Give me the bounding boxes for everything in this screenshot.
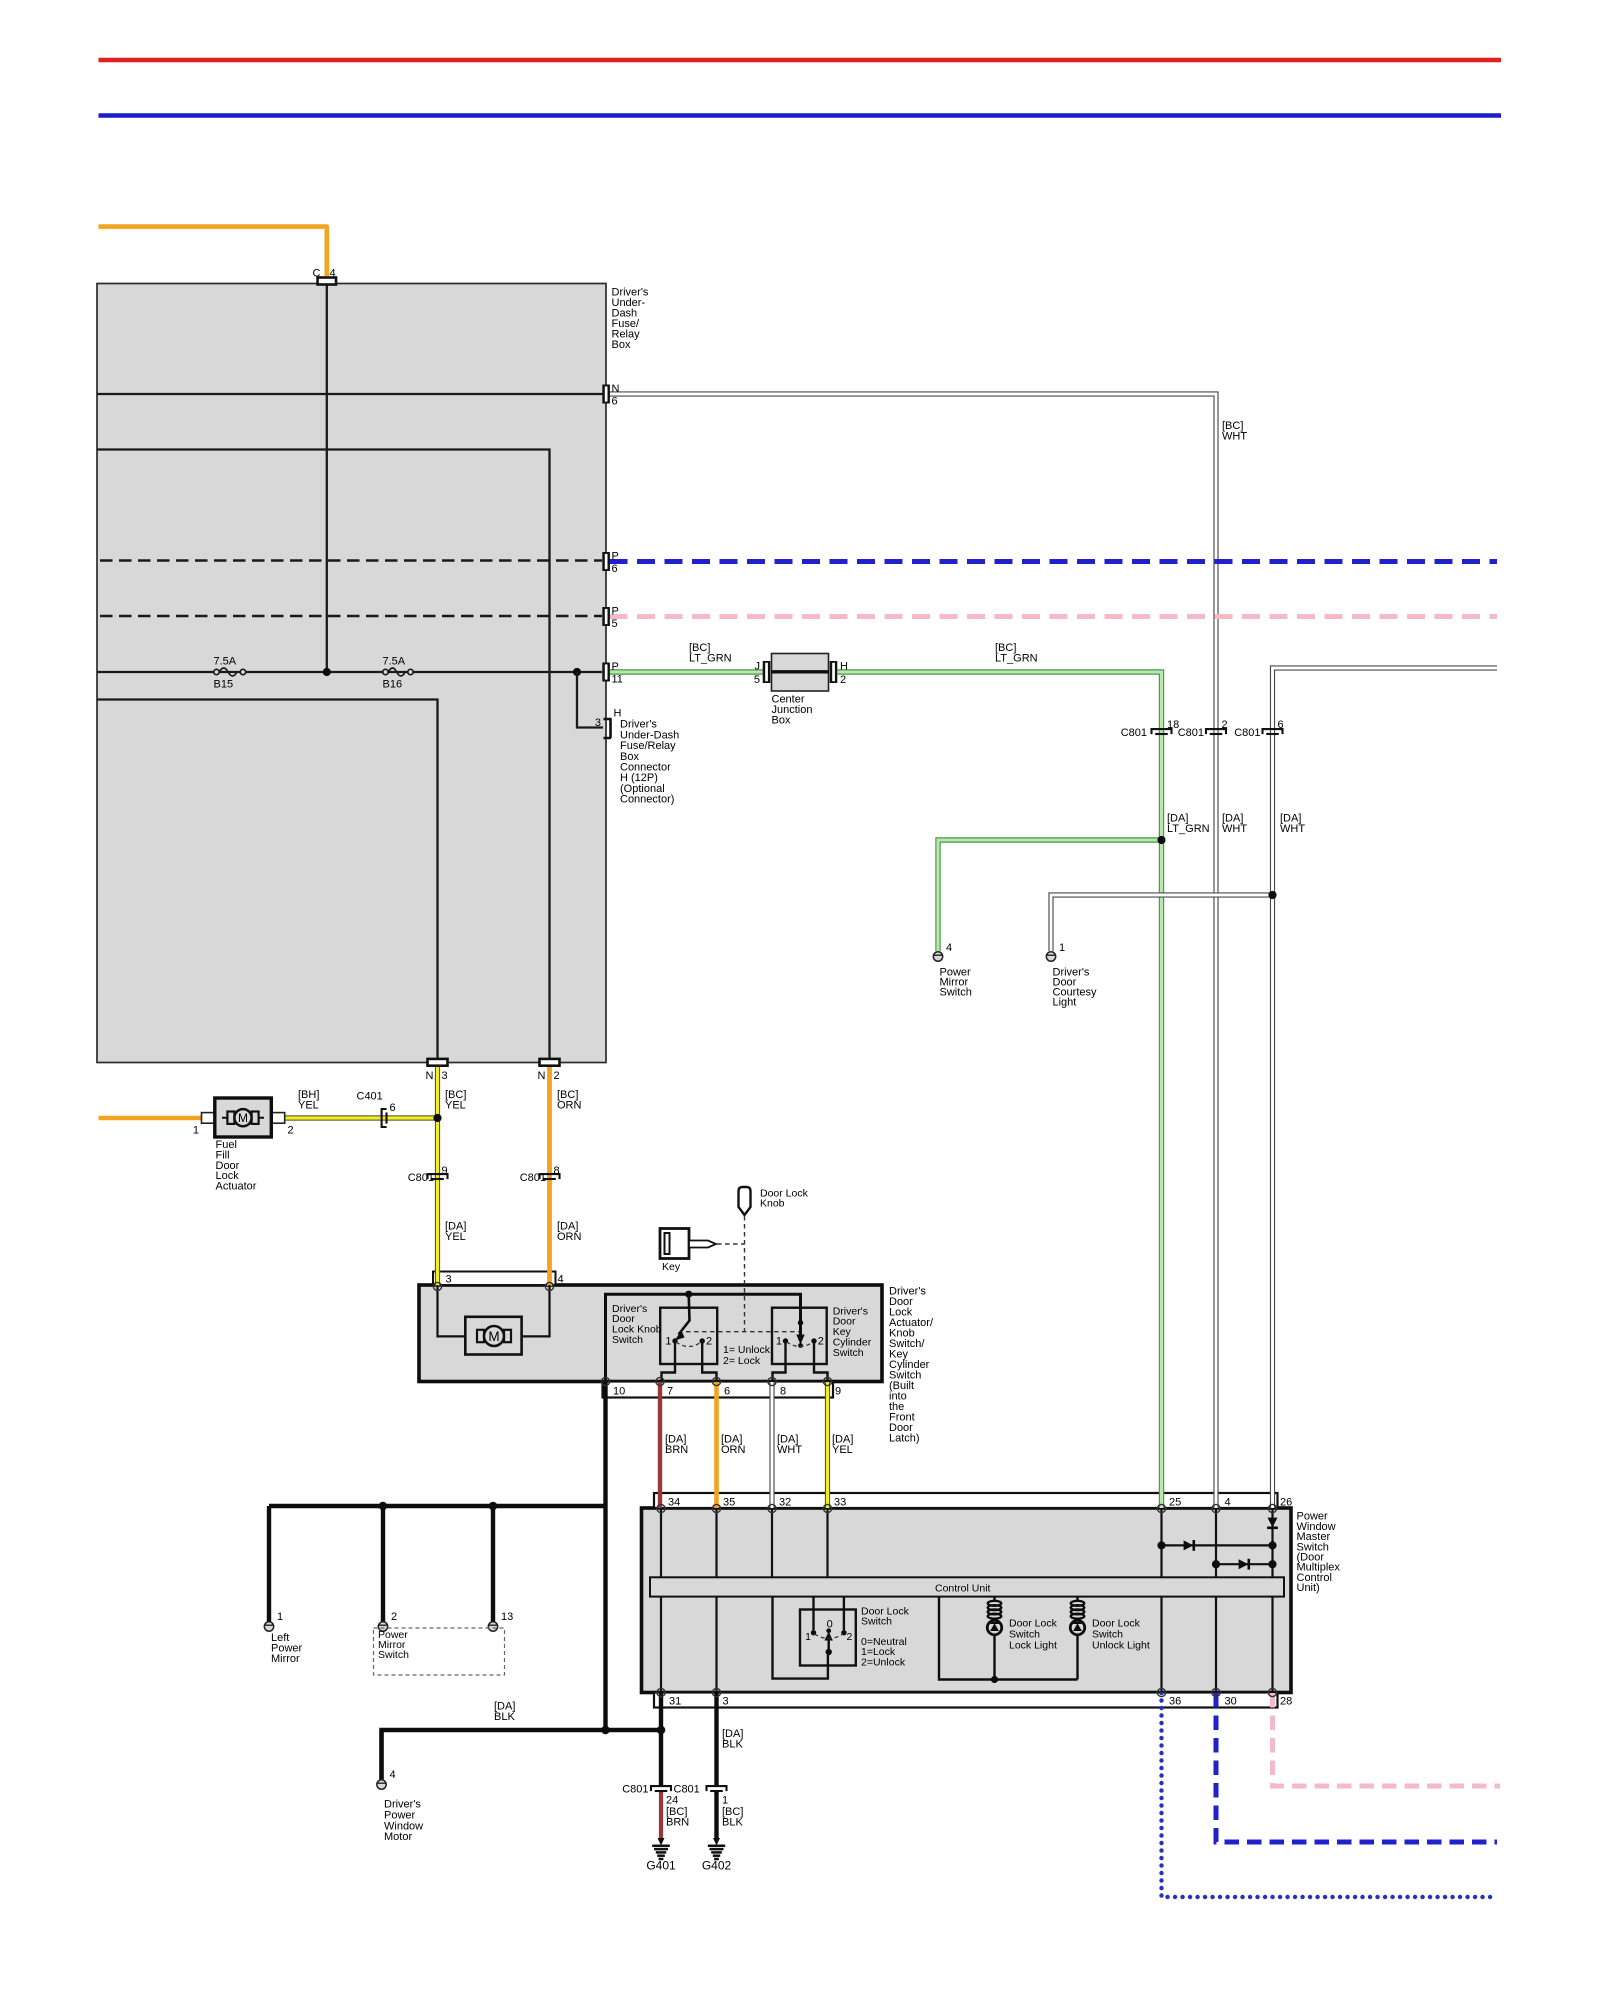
svg-text:H: H xyxy=(840,661,848,673)
label Unlock Light xyxy=(1092,1617,1150,1651)
wire: blue dashed from pin 30 xyxy=(1216,1693,1497,1842)
terminal 1: Driver's Door Courtesy Light xyxy=(1046,952,1055,961)
label [BC] ORN xyxy=(557,1089,582,1112)
svg-text:1: 1 xyxy=(805,1631,811,1643)
center junction box internal bar xyxy=(772,670,829,673)
svg-text:BLK: BLK xyxy=(722,1817,743,1829)
svg-text:2= Lock: 2= Lock xyxy=(723,1355,761,1367)
internal leads pins 34,35,32,33 to control unit xyxy=(661,1508,828,1577)
svg-text:9: 9 xyxy=(442,1165,448,1177)
wire: stub to driver power window motor xyxy=(379,1730,383,1780)
junction dot yellow xyxy=(433,1114,441,1122)
terminal 4: Driver's Power Window Motor xyxy=(377,1780,386,1789)
svg-text:36: 36 xyxy=(1169,1696,1181,1708)
label [BC] LT_GRN left xyxy=(689,642,732,665)
svg-text:BRN: BRN xyxy=(666,1817,689,1829)
ground G402 xyxy=(708,1846,725,1859)
label [DA] ORN 2 xyxy=(721,1434,746,1457)
svg-text:M: M xyxy=(488,1329,499,1344)
svg-text:3: 3 xyxy=(723,1696,729,1708)
wire: latch common pin 10 up and across xyxy=(606,1294,801,1381)
wire: BLK bus to mirrors xyxy=(269,1504,606,1508)
svg-text:34: 34 xyxy=(668,1497,680,1509)
connector N2 on fuse box xyxy=(540,1059,560,1066)
connector C401 pin 6 xyxy=(382,1109,387,1127)
label [BC] WHT xyxy=(1222,420,1247,443)
ground G401 xyxy=(652,1846,670,1859)
svg-text:2: 2 xyxy=(818,1336,824,1348)
label [BC] BRN xyxy=(666,1806,689,1829)
label latch assembly xyxy=(889,1286,934,1445)
junction dot knob lever xyxy=(685,1291,692,1298)
key cylinder lever xyxy=(798,1320,803,1325)
terminal 1: Left Power Mirror xyxy=(264,1622,273,1631)
svg-text:8: 8 xyxy=(554,1165,560,1177)
label Fuel Fill Door Lock Actuator xyxy=(216,1139,257,1192)
svg-text:28: 28 xyxy=(1280,1696,1292,1708)
label [BC] BLK xyxy=(722,1806,743,1829)
label switch positions xyxy=(861,1636,907,1669)
svg-text:10: 10 xyxy=(613,1386,625,1398)
junction dot white branch xyxy=(1268,891,1276,899)
svg-text:35: 35 xyxy=(723,1497,735,1509)
svg-text:WHT: WHT xyxy=(1222,823,1247,835)
label [BC] LT_GRN right xyxy=(995,642,1038,665)
svg-text:1: 1 xyxy=(1059,942,1065,954)
terminal 13: Power Mirror Switch xyxy=(488,1622,497,1631)
svg-text:Box: Box xyxy=(612,339,631,351)
svg-text:H: H xyxy=(614,708,622,720)
connector H (12P) bracket xyxy=(604,718,612,738)
label [DA] WHT right xyxy=(1280,813,1305,836)
door lock switch lever arrow xyxy=(825,1632,833,1641)
svg-text:M: M xyxy=(238,1111,248,1125)
label Left Power Mirror xyxy=(271,1632,303,1665)
fuse B15 7.5A xyxy=(214,668,246,676)
mechanical dashed link: key to rod xyxy=(717,1243,745,1245)
svg-text:C801: C801 xyxy=(1178,727,1204,739)
svg-text:6: 6 xyxy=(390,1102,396,1114)
wire [BC] BLK to ground G402 xyxy=(714,1791,718,1840)
svg-text:YEL: YEL xyxy=(445,1231,466,1243)
svg-text:LT_GRN: LT_GRN xyxy=(995,653,1038,665)
wire [BC]/[DA] ORN from N2 to latch pin 4 xyxy=(547,1065,552,1286)
svg-text:5: 5 xyxy=(612,618,618,630)
door lock switch dashed arc xyxy=(815,1634,843,1639)
svg-text:24: 24 xyxy=(666,1795,678,1807)
wire: [DA] BLK master pin 3 to C801 xyxy=(714,1693,718,1785)
label Lock Light xyxy=(1009,1617,1058,1651)
key cylinder dashed arc xyxy=(787,1342,814,1347)
svg-text:1: 1 xyxy=(193,1125,199,1137)
svg-text:Switch: Switch xyxy=(861,1616,892,1628)
svg-text:Switch: Switch xyxy=(833,1347,864,1359)
svg-text:Key: Key xyxy=(662,1261,681,1273)
wire: BLK master pin 31 to C801 xyxy=(659,1693,663,1785)
svg-text:Knob: Knob xyxy=(760,1197,785,1209)
connector N6 xyxy=(602,385,610,404)
label 1=Unlock 2=Lock xyxy=(723,1344,771,1367)
svg-text:4: 4 xyxy=(1225,1497,1231,1509)
svg-text:BLK: BLK xyxy=(494,1711,515,1723)
connector C801 pin 8 xyxy=(540,1174,560,1179)
wire: internal bus L-shape to N2 xyxy=(97,450,550,1063)
connector P6 xyxy=(602,552,610,571)
master bottom connector strip xyxy=(654,1693,1278,1708)
mechanical dashed link: horizontal to levers xyxy=(686,1331,800,1333)
svg-text:30: 30 xyxy=(1225,1696,1237,1708)
wire [DA] ORN pin6 to master 35 xyxy=(714,1382,719,1508)
svg-text:WHT: WHT xyxy=(777,1444,802,1456)
svg-text:6: 6 xyxy=(1278,719,1284,731)
svg-text:2: 2 xyxy=(288,1125,294,1137)
blue rail xyxy=(99,113,1502,117)
svg-text:J: J xyxy=(755,661,761,673)
wire [BC]/[DA] WHT right edge to master pin 26 xyxy=(1273,668,1498,1508)
wire [BC]/[DA] YEL from N3 to latch pin 3 xyxy=(435,1065,440,1286)
motor: driver door lock actuator xyxy=(477,1326,511,1346)
svg-text:B16: B16 xyxy=(383,679,403,691)
svg-text:Switch: Switch xyxy=(940,987,972,999)
connector C801 pin 9 xyxy=(428,1174,448,1179)
wire LT_GRN branch to power mirror switch xyxy=(938,840,1162,951)
wire [BC] LT_GRN from P11 to center junction box xyxy=(610,669,766,674)
wires inside latch box to motor xyxy=(438,1285,480,1336)
wire: blue dotted from pin 36 xyxy=(1162,1693,1498,1897)
knob switch pins 1,2 xyxy=(672,1338,677,1343)
wire [BC] BRN to ground G401 xyxy=(659,1791,663,1840)
svg-text:C401: C401 xyxy=(357,1091,383,1103)
label [DA] ORN xyxy=(557,1221,582,1244)
svg-text:BRN: BRN xyxy=(665,1444,688,1456)
connector N3 on fuse box xyxy=(428,1059,448,1066)
junction on fuse bus to connector H xyxy=(573,668,581,676)
wire: pink dashed from pin 28 xyxy=(1273,1693,1501,1786)
wire: dashed internal bus P5 xyxy=(100,615,602,617)
svg-text:3: 3 xyxy=(442,1070,448,1082)
svg-text:6: 6 xyxy=(612,563,618,575)
svg-text:4: 4 xyxy=(558,1274,564,1286)
label [DA] YEL 2 xyxy=(832,1434,853,1457)
svg-text:25: 25 xyxy=(1169,1497,1181,1509)
svg-text:1: 1 xyxy=(722,1795,728,1807)
wire: internal bus L-shape to N3 xyxy=(97,700,438,1063)
svg-text:B15: B15 xyxy=(214,679,234,691)
diode D3 pin-4 row xyxy=(1239,1559,1249,1570)
key cylinder pins 1,2 xyxy=(783,1338,788,1343)
master top connector strip xyxy=(654,1493,1278,1508)
svg-text:ORN: ORN xyxy=(557,1100,582,1112)
connector H2 (center junction box) xyxy=(830,661,838,683)
svg-text:Switch: Switch xyxy=(612,1334,643,1346)
actuator top connector strip (pins 3,4) xyxy=(433,1272,556,1286)
svg-text:Actuator: Actuator xyxy=(216,1180,257,1192)
svg-text:P: P xyxy=(612,606,619,618)
svg-text:31: 31 xyxy=(669,1696,681,1708)
svg-text:LT_GRN: LT_GRN xyxy=(1167,823,1210,835)
wire: fuse bus xyxy=(97,671,602,673)
Key icon xyxy=(660,1229,716,1259)
svg-text:WHT: WHT xyxy=(1280,823,1305,835)
svg-text:Light: Light xyxy=(1053,997,1077,1009)
LED: Door Lock Switch Unlock Light xyxy=(1070,1597,1084,1680)
label knob switch xyxy=(612,1303,662,1346)
svg-text:11: 11 xyxy=(612,674,623,686)
connector C4 on fuse box xyxy=(318,278,337,285)
LED: Door Lock Switch Lock Light xyxy=(987,1597,1001,1680)
wire [DA] BRN pin7 to master 34 xyxy=(658,1382,662,1508)
svg-text:5: 5 xyxy=(754,674,760,686)
label connector H (12P) xyxy=(620,719,679,806)
Driver's Door Key Cylinder Switch box xyxy=(772,1308,827,1364)
label [DA] BLK pin3 xyxy=(722,1728,743,1751)
label [DA] BLK bus xyxy=(494,1701,515,1724)
svg-text:26: 26 xyxy=(1280,1497,1292,1509)
knob switch dashed arc xyxy=(676,1342,701,1347)
svg-text:ORN: ORN xyxy=(557,1231,582,1243)
wire [BH] YEL actuator to junction xyxy=(277,1115,438,1120)
wire [BC]WHT/[DA]WHT from N6 to master pin 4 xyxy=(610,394,1217,1508)
connector P5 xyxy=(602,607,610,626)
svg-text:C801: C801 xyxy=(1121,727,1147,739)
label [DA] BRN xyxy=(665,1434,688,1457)
svg-text:7.5A: 7.5A xyxy=(383,656,406,668)
terminal 2: Power Mirror Switch xyxy=(378,1622,387,1631)
svg-text:2: 2 xyxy=(1222,719,1228,731)
svg-text:Unit): Unit) xyxy=(1297,1582,1320,1594)
wire [DA] YEL pin9 to master 33 xyxy=(825,1382,830,1508)
svg-text:7: 7 xyxy=(667,1386,673,1398)
wire: BLK from latch pin 10 down xyxy=(603,1382,607,1730)
svg-text:Connector): Connector) xyxy=(620,794,674,806)
Door Lock Knob icon xyxy=(739,1187,751,1215)
key cylinder pin leads xyxy=(773,1341,786,1381)
wire: stub to power mirror switch pin 2 xyxy=(381,1506,385,1622)
label Center Junction Box xyxy=(772,694,813,727)
wire [BC]/[DA] LT_GRN junction box to master pin 25 xyxy=(838,672,1162,1508)
svg-text:P: P xyxy=(612,551,619,563)
Power Window Master Switch (Door Multiplex Control Unit) box xyxy=(642,1508,1292,1693)
svg-text:N: N xyxy=(538,1070,546,1082)
diode D1 from pin 26 xyxy=(1267,1518,1278,1528)
Driver's Door Lock Actuator/Knob Switch/Key Cylinder Switch box xyxy=(419,1285,882,1382)
label Door Lock Switch xyxy=(861,1605,910,1627)
svg-text:2: 2 xyxy=(706,1336,712,1348)
svg-text:1: 1 xyxy=(277,1611,283,1623)
label [DA] WHT mid xyxy=(1222,813,1247,836)
wire: bus to connector N xyxy=(97,393,606,395)
svg-text:6: 6 xyxy=(612,396,618,408)
svg-text:3: 3 xyxy=(446,1274,452,1286)
wire: stub to left power mirror xyxy=(267,1506,271,1622)
connector C801 pin 2 xyxy=(1206,729,1226,734)
svg-text:Switch: Switch xyxy=(378,1649,409,1661)
wire: orange feed to fuel fill actuator xyxy=(99,1116,206,1121)
svg-text:WHT: WHT xyxy=(1222,431,1247,443)
svg-text:Lock Light: Lock Light xyxy=(1009,1639,1057,1651)
junction on fuse bus at C4 feed xyxy=(323,668,331,676)
connector C801 pin 6 xyxy=(1263,729,1283,734)
svg-text:2: 2 xyxy=(554,1070,560,1082)
svg-text:Box: Box xyxy=(772,715,791,727)
svg-text:BLK: BLK xyxy=(722,1739,743,1751)
svg-text:C801: C801 xyxy=(520,1172,546,1184)
svg-text:C801: C801 xyxy=(1234,727,1260,739)
svg-text:2: 2 xyxy=(391,1611,397,1623)
wire: pink dashed bus from P5 xyxy=(610,614,1498,619)
svg-text:1: 1 xyxy=(776,1336,782,1348)
svg-text:YEL: YEL xyxy=(298,1100,319,1112)
connector P11 xyxy=(602,663,610,682)
master pin circles xyxy=(657,1504,665,1512)
connector C801 pin 24 xyxy=(651,1786,671,1791)
lights common bus xyxy=(939,1597,1078,1680)
motor enclosure xyxy=(465,1317,521,1355)
svg-text:ORN: ORN xyxy=(721,1444,746,1456)
wire WHT branch to courtesy light xyxy=(1051,895,1273,951)
diode D2 pin-25 row xyxy=(1184,1540,1194,1551)
label [BH] YEL xyxy=(298,1089,319,1112)
svg-text:1: 1 xyxy=(665,1336,671,1348)
label [DA] WHT 2 xyxy=(777,1434,802,1457)
label [BC] YEL xyxy=(445,1089,466,1112)
Center Junction Box xyxy=(772,654,829,692)
svg-text:Unlock Light: Unlock Light xyxy=(1092,1639,1150,1651)
svg-text:3: 3 xyxy=(595,717,601,729)
terminal 4: Power Mirror Switch xyxy=(933,952,942,961)
mechanical dashed link: knob rod down xyxy=(744,1216,746,1332)
junction dot green branch xyxy=(1157,836,1165,844)
svg-text:4: 4 xyxy=(946,942,952,954)
connector C801 pin 1 xyxy=(707,1786,727,1791)
svg-text:0: 0 xyxy=(827,1619,833,1631)
svg-text:G401: G401 xyxy=(646,1859,676,1873)
Door Lock Switch (in master) common loop xyxy=(773,1597,828,1679)
label window motor xyxy=(384,1799,423,1843)
svg-text:N: N xyxy=(612,383,620,395)
svg-text:N: N xyxy=(426,1070,434,1082)
dashed grouping box: power mirror switch xyxy=(374,1628,505,1675)
svg-text:6: 6 xyxy=(724,1386,730,1398)
svg-text:C801: C801 xyxy=(622,1784,648,1796)
wire: orange feed into C4 xyxy=(99,227,327,276)
label: fuse/relay box xyxy=(612,287,649,352)
fuse B16 7.5A xyxy=(383,668,413,676)
Control Unit bar xyxy=(650,1577,1284,1596)
wire: feed from C4 xyxy=(326,284,328,672)
svg-text:4: 4 xyxy=(390,1769,396,1781)
svg-text:2: 2 xyxy=(840,674,846,686)
knob switch lever xyxy=(679,1294,690,1334)
svg-text:P: P xyxy=(612,661,619,673)
svg-text:Mirror: Mirror xyxy=(271,1653,300,1665)
connector C801 pin 18 xyxy=(1152,729,1172,734)
wire: [DA] BLK bus xyxy=(382,1730,662,1784)
Driver's Door Lock Knob Switch box xyxy=(660,1308,717,1364)
svg-text:Latch): Latch) xyxy=(889,1433,920,1445)
svg-text:C801: C801 xyxy=(408,1172,434,1184)
knob switch pin leads xyxy=(662,1341,676,1381)
wire: stub to optional connector H xyxy=(577,672,603,728)
wire: blue dashed bus from P6 xyxy=(610,559,1498,564)
label Door Lock Knob xyxy=(760,1187,809,1209)
internal leads pins 25,4,26 + diode rows xyxy=(1162,1508,1273,1577)
latch bottom connector strip (pins 10,7,6,8,9) xyxy=(603,1382,834,1398)
label Power Mirror Switch bottom xyxy=(378,1629,409,1661)
svg-text:32: 32 xyxy=(779,1497,791,1509)
wire: stub to power mirror switch pin 13 xyxy=(491,1506,495,1622)
svg-text:33: 33 xyxy=(834,1497,846,1509)
svg-text:G402: G402 xyxy=(702,1859,732,1873)
label Power Mirror Switch top xyxy=(940,967,972,999)
door lock switch pins 1,2 xyxy=(811,1630,816,1635)
Fuel Fill Door Lock Actuator xyxy=(202,1098,285,1137)
label [DA] LT_GRN xyxy=(1167,813,1210,836)
svg-text:7.5A: 7.5A xyxy=(214,656,237,668)
svg-text:13: 13 xyxy=(501,1611,513,1623)
svg-text:9: 9 xyxy=(835,1386,841,1398)
svg-text:YEL: YEL xyxy=(832,1444,853,1456)
svg-text:LT_GRN: LT_GRN xyxy=(689,653,732,665)
svg-text:2=Unlock: 2=Unlock xyxy=(861,1657,906,1669)
svg-text:2: 2 xyxy=(847,1631,853,1643)
connector J5 (center junction box) xyxy=(763,661,771,683)
label courtesy light xyxy=(1053,967,1098,1009)
svg-text:C: C xyxy=(313,268,321,280)
svg-text:Motor: Motor xyxy=(384,1831,412,1843)
red rail xyxy=(99,58,1502,62)
svg-text:YEL: YEL xyxy=(445,1100,466,1112)
svg-text:8: 8 xyxy=(780,1386,786,1398)
label Power Window Master Switch xyxy=(1297,1511,1341,1594)
Driver's Under-Dash Fuse/Relay Box xyxy=(97,284,606,1063)
leads control unit to bottom pins xyxy=(661,1597,1273,1693)
wire: dashed internal bus P6 xyxy=(100,559,602,561)
motor: fuel fill door lock actuator xyxy=(222,1109,264,1126)
label [DA] YEL xyxy=(445,1221,466,1244)
Door Lock Switch box xyxy=(800,1610,856,1666)
svg-text:4: 4 xyxy=(330,268,336,280)
label key cylinder switch xyxy=(833,1305,872,1359)
wire [DA] WHT pin8 to master 32 xyxy=(769,1382,774,1508)
latch strip pin circles xyxy=(601,1377,609,1385)
svg-text:Control Unit: Control Unit xyxy=(935,1583,991,1595)
